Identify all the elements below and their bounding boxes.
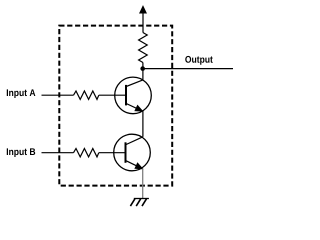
- wire Input B: [42, 152, 74, 154]
- label Output: [185, 56, 213, 65]
- transistor Q2: [114, 134, 151, 171]
- Vcc supply arrow: [140, 6, 147, 33]
- wire Q1 emitter to Q2 collector: [142, 111, 144, 137]
- transistor Q1: [115, 77, 152, 114]
- resistor R3 (Input B): [74, 149, 99, 157]
- wire resistor to Q2 base: [99, 152, 126, 154]
- wire Input A: [42, 94, 74, 96]
- node junction dot: [140, 66, 145, 71]
- wire resistor to Q1 base: [99, 94, 126, 96]
- wire Q1 collector to node: [142, 69, 144, 80]
- ground symbol: [130, 199, 149, 207]
- wire Q2 emitter to ground (gray): [142, 169, 144, 199]
- resistor R2 (Input A): [74, 91, 99, 99]
- label Input B: [7, 148, 35, 157]
- wire output: [143, 68, 233, 70]
- label Input A: [7, 89, 36, 98]
- resistor R1 (pull-up, vertical): [139, 33, 148, 63]
- IC package boundary (dashed box): [59, 26, 172, 186]
- wire resistor to output node: [142, 63, 144, 69]
